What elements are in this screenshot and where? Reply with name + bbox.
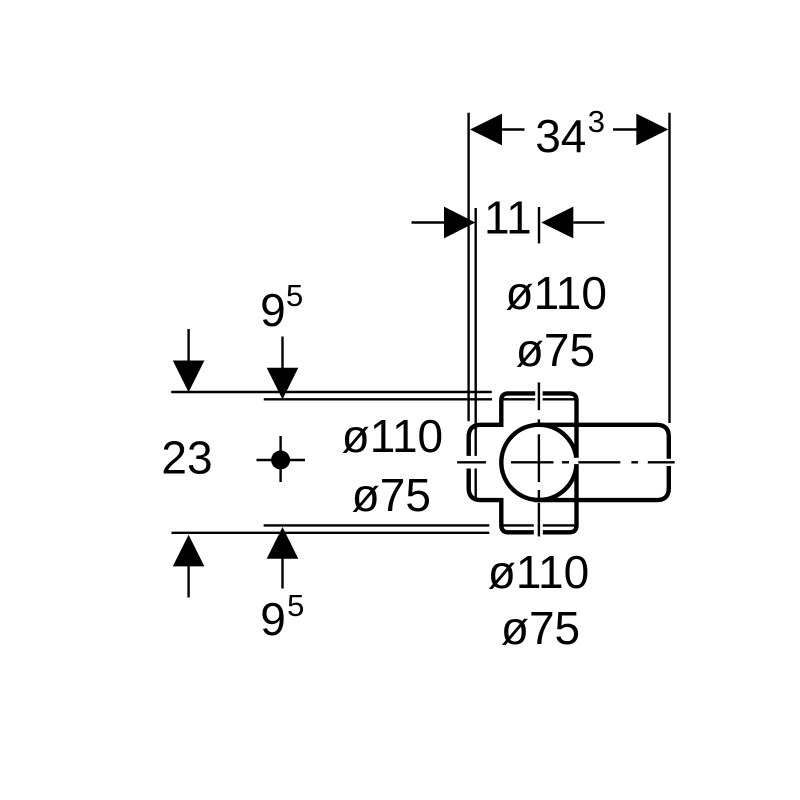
svg-text:ø110: ø110 (342, 410, 443, 462)
svg-text:23: 23 (161, 432, 212, 484)
svg-text:ø75: ø75 (501, 602, 580, 654)
svg-text:5: 5 (287, 588, 304, 623)
svg-text:ø75: ø75 (352, 469, 431, 521)
svg-text:11: 11 (484, 192, 532, 244)
svg-text:ø110: ø110 (488, 546, 589, 598)
svg-text:9: 9 (260, 593, 286, 645)
svg-text:9: 9 (260, 284, 286, 336)
svg-text:5: 5 (286, 278, 303, 313)
svg-text:ø75: ø75 (516, 324, 595, 376)
svg-text:3: 3 (588, 104, 605, 139)
svg-text:ø110: ø110 (505, 267, 606, 319)
svg-text:34: 34 (535, 110, 586, 162)
